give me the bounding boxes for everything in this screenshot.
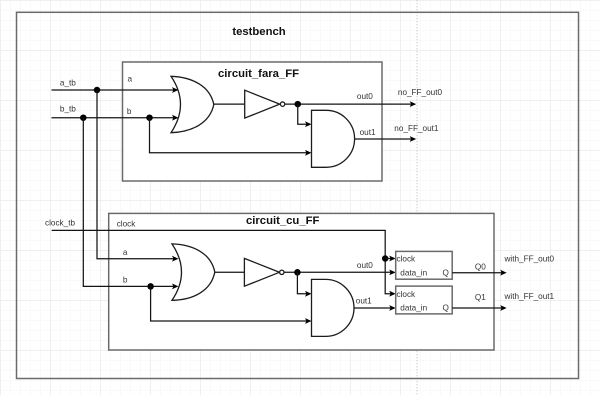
wire b feedback to AND1 <box>150 118 308 153</box>
inverter U5 (circuit 2) <box>244 258 279 286</box>
inverter U2 (circuit 1) <box>245 90 280 118</box>
svg-text:out1: out1 <box>360 128 376 137</box>
svg-text:a: a <box>128 75 133 84</box>
flip-flop FF1 box <box>396 251 453 279</box>
wire a_tb to circuit_cu_FF input a <box>97 90 175 259</box>
svg-text:clock: clock <box>117 220 137 229</box>
svg-text:out0: out0 <box>357 92 373 101</box>
wire OR1 output <box>214 103 246 105</box>
wire b_tb <box>52 117 175 119</box>
node dot on clock line <box>382 255 389 262</box>
svg-text:clock_tb: clock_tb <box>45 219 75 228</box>
or-gate U1 (circuit 1) <box>171 76 214 132</box>
node dot NOT1 output <box>295 101 302 108</box>
wire b_tb to circuit_cu_FF input b <box>83 118 174 287</box>
wire NOT2 output branch to AND2 <box>297 272 307 294</box>
and-gate U3 (circuit 1) <box>312 110 355 167</box>
svg-text:no_FF_out0: no_FF_out0 <box>398 88 443 97</box>
container circuit_fara_FF <box>123 62 383 181</box>
wire AND2 output to FF2 data_in <box>354 307 392 309</box>
node dot on b_tb <box>80 114 87 121</box>
wire b feedback to AND2 <box>151 286 308 321</box>
container circuit_cu_FF <box>109 213 494 350</box>
wire FF1 Q to with_FF_out0 <box>452 272 502 274</box>
wire a_tb <box>52 89 175 91</box>
wire OR2 output <box>215 271 244 273</box>
wire FF2 Q to with_FF_out1 <box>452 307 502 309</box>
node dot b feedback circuit 2 <box>147 283 154 290</box>
svg-text:Q: Q <box>443 269 449 278</box>
page boundary dashed line <box>416 0 418 395</box>
and-gate U6 (circuit 2) <box>312 279 355 336</box>
svg-text:Q0: Q0 <box>475 263 486 272</box>
svg-text:with_FF_out0: with_FF_out0 <box>504 255 555 264</box>
svg-text:clock: clock <box>397 255 417 264</box>
svg-text:no_FF_out1: no_FF_out1 <box>394 124 439 133</box>
inverter U5 bubble <box>280 270 284 274</box>
svg-text:data_in: data_in <box>400 269 427 278</box>
svg-text:data_in: data_in <box>400 304 427 313</box>
flip-flop FF2 box <box>396 286 453 314</box>
inverter U2 bubble <box>280 102 284 106</box>
or-gate U4 (circuit 2) <box>172 244 215 300</box>
node dot b feedback circuit 1 <box>146 114 153 121</box>
svg-text:circuit_cu_FF: circuit_cu_FF <box>246 215 320 227</box>
svg-text:b: b <box>123 276 128 285</box>
svg-text:a_tb: a_tb <box>60 79 76 88</box>
svg-text:b: b <box>127 107 132 116</box>
svg-text:a: a <box>123 248 128 257</box>
wire NOT2 output to FF1 data_in <box>284 271 392 273</box>
wire NOT1 output branch to AND1 <box>298 104 308 124</box>
svg-text:out1: out1 <box>356 296 372 305</box>
svg-text:testbench: testbench <box>232 26 285 38</box>
svg-text:circuit_fara_FF: circuit_fara_FF <box>218 68 299 80</box>
svg-text:b_tb: b_tb <box>60 104 76 113</box>
wire clock branch to FF1 clock <box>385 258 391 260</box>
wire AND1 output to no_FF_out1 <box>355 138 412 140</box>
svg-text:Q: Q <box>443 304 449 313</box>
svg-text:Q1: Q1 <box>475 293 486 302</box>
svg-text:clock: clock <box>397 290 417 299</box>
wire NOT1 output to no_FF_out0 <box>285 103 413 105</box>
svg-text:with_FF_out1: with_FF_out1 <box>504 292 555 301</box>
svg-text:out0: out0 <box>357 261 373 270</box>
node dot on a_tb <box>94 87 101 94</box>
wire clock_tb <box>52 230 392 293</box>
node dot NOT2 output <box>294 269 301 276</box>
